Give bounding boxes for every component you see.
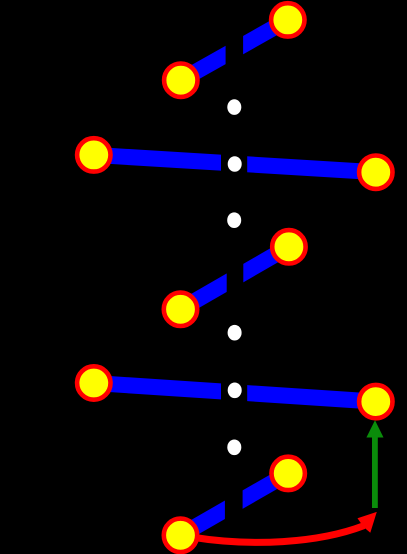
molecule end bead C5R bbox=[272, 457, 305, 490]
molecule end bead C2R bbox=[359, 156, 392, 189]
rod 3 center gap bbox=[227, 260, 244, 296]
molecule end bead C4L bbox=[77, 366, 110, 399]
red rotation arrow head bbox=[358, 512, 377, 533]
axis dot on rod 2 bbox=[228, 156, 242, 172]
rod 3 (middle tilted molecule) bbox=[181, 247, 289, 309]
axis dot 4 (below rod 4) bbox=[227, 440, 241, 456]
rod 5 (bottom tilted molecule) bbox=[181, 473, 289, 535]
axis dot on rod 4 bbox=[228, 383, 242, 399]
molecule end bead C4R bbox=[359, 385, 392, 418]
rod 5 center gap bbox=[225, 486, 243, 522]
molecule end bead C3L bbox=[164, 293, 197, 326]
molecule end bead C2L bbox=[77, 138, 110, 171]
rod 4 center gap bbox=[221, 377, 247, 407]
axis dot 2 (above rod 3) bbox=[227, 212, 241, 228]
molecule end bead C1L bbox=[164, 63, 197, 96]
rod 1 (top tilted molecule) bbox=[181, 20, 288, 80]
rod 1 center gap bbox=[226, 32, 244, 68]
green pitch arrow head bbox=[366, 420, 383, 437]
axis dot 3 (below rod 3) bbox=[228, 325, 242, 341]
rod 4 (lower horizontal molecule) bbox=[94, 383, 376, 402]
axis dot 1 bbox=[227, 99, 241, 115]
molecule end bead C1R bbox=[271, 3, 304, 36]
molecule end bead C5L bbox=[164, 519, 197, 552]
rod 2 center gap bbox=[221, 149, 247, 179]
molecule end bead C3R bbox=[272, 230, 305, 263]
rod 2 (upper horizontal molecule) bbox=[94, 155, 376, 172]
green pitch arrow shaft bbox=[372, 437, 378, 509]
red rotation arrow curve bbox=[191, 526, 364, 543]
